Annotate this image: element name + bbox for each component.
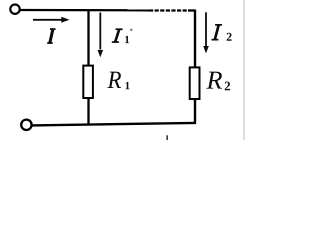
page rule (right edge) (243, 0, 245, 140)
current arrow I2 (203, 12, 209, 53)
stray mark (bottom) (166, 135, 168, 140)
wire: R1 branch top vertical (87, 10, 89, 67)
svg-text:2: 2 (224, 78, 231, 93)
wire: top-right corner (188, 9, 195, 11)
label I2 (212, 24, 223, 41)
svg-text:R: R (205, 66, 222, 95)
wire: right vertical (to R2) (194, 10, 196, 68)
svg-text:1: 1 (124, 34, 130, 46)
svg-text:R: R (107, 67, 122, 94)
terminal (bottom-left) (21, 120, 31, 130)
label I (47, 28, 55, 44)
terminal (top-left) (10, 5, 19, 14)
wire: R1 bottom vertical (87, 98, 89, 125)
wire: bottom horizontal (32, 123, 196, 126)
wire: R2 bottom vertical (194, 99, 196, 124)
label I1 (112, 28, 123, 43)
wire: top horizontal (20, 9, 150, 12)
svg-text:2: 2 (226, 30, 232, 44)
wire: top horizontal dashed segment (149, 9, 189, 11)
resistor R1 (83, 66, 93, 98)
resistor R2 (190, 67, 200, 99)
current arrow I (33, 17, 70, 23)
speck (right of I1 label) (130, 29, 132, 31)
svg-text:1: 1 (125, 80, 131, 92)
current arrow I1 (98, 13, 104, 58)
